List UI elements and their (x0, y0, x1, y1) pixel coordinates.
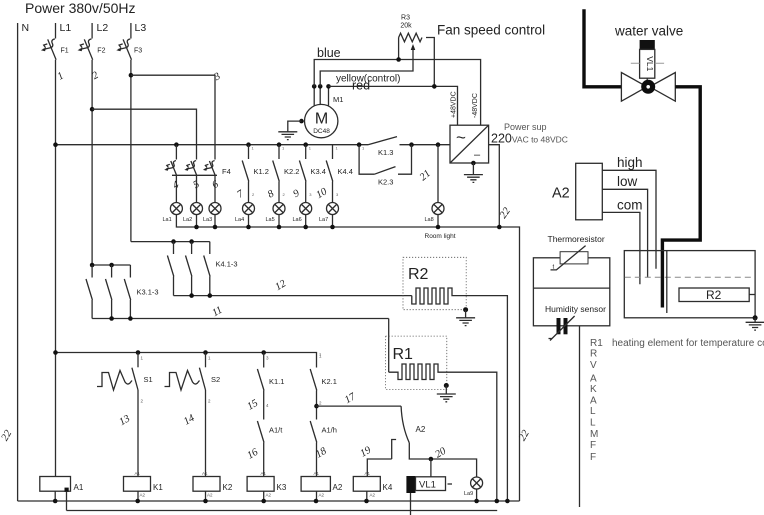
svg-text:La4: La4 (235, 217, 244, 223)
node bus room light tap (436, 142, 441, 147)
svg-text:F1: F1 (61, 48, 69, 55)
node A2 bus (314, 499, 319, 504)
wire lamp drops to rail (197, 215, 333, 228)
svg-text:blue: blue (317, 46, 341, 60)
svg-text:red: red (352, 79, 370, 93)
node bus K1.2 tap (246, 142, 251, 147)
svg-text:A2: A2 (140, 493, 146, 498)
wire K4 coil to bus (366, 491, 368, 501)
node rail La6 (303, 225, 308, 230)
contact K2.3 parallel branch (359, 145, 411, 175)
tank heater R2 box (679, 288, 749, 302)
wire 17 (317, 405, 402, 407)
water level dashed (625, 276, 755, 278)
svg-text:L3: L3 (135, 22, 147, 34)
svg-text:R1: R1 (393, 346, 414, 363)
lamp La7 (327, 203, 339, 215)
fuse F4 pole 1 (164, 161, 177, 176)
svg-text:M1: M1 (333, 95, 343, 104)
svg-text:N: N (22, 22, 30, 34)
node K2 bus (203, 499, 208, 504)
svg-text:K4.1-3: K4.1-3 (216, 260, 238, 269)
node bus-L1 junction (53, 142, 58, 147)
contact K3.4 (305, 145, 307, 159)
svg-text:La2: La2 (183, 217, 192, 223)
node L3 to wire 3 branch (129, 73, 134, 78)
wire K3.4 to La6 (305, 182, 307, 203)
svg-text:La6: La6 (293, 217, 302, 223)
node bus352 S1 (136, 350, 141, 355)
lamp La2 (191, 203, 203, 215)
wire L2 top (91, 23, 93, 39)
svg-text:A: A (590, 396, 597, 407)
svg-text:A2: A2 (333, 483, 343, 492)
contactor K4.1-3 pole 1 (167, 242, 173, 296)
svg-text:R1heating element for temperat: R1heating element for temperature co (590, 338, 764, 349)
wire L2 branch to La2 breaker (92, 109, 196, 159)
wire neutral bottom bus (18, 500, 520, 502)
svg-text:K1.1: K1.1 (269, 377, 284, 386)
wire PSU to ground (472, 163, 474, 175)
wire N vertical (17, 23, 19, 501)
wire bottom bus2 (67, 510, 498, 512)
wire R2 box to tank wall (749, 294, 755, 296)
node bus K2.3 right (409, 142, 414, 147)
wire sensor output down (579, 326, 581, 507)
wire tank ground stub (754, 318, 756, 323)
svg-text:A2: A2 (552, 186, 570, 202)
node bus La1 tap (174, 142, 179, 147)
wire bus 144 right portion to PSU (400, 144, 451, 146)
svg-text:com: com (617, 198, 643, 213)
contactor K3.1-3 pole 2 (106, 265, 112, 319)
coil VL1 solenoid black (406, 476, 415, 493)
svg-text:L: L (590, 406, 596, 417)
contact K1.3 blade (368, 137, 397, 145)
svg-text:L1: L1 (60, 22, 72, 34)
wire K2.2 to La5 (278, 182, 280, 203)
node La9 bus (474, 499, 479, 504)
contactor K3.1-3 pole 1 (86, 265, 92, 319)
lamp La3 (209, 203, 221, 215)
node bus352 K1.1 (261, 350, 266, 355)
svg-text:V: V (590, 360, 597, 371)
wire K3 coil to bus (263, 491, 265, 501)
node K4 bottom mid (189, 293, 194, 298)
contact A1/h (310, 421, 317, 443)
wire L2 vertical (91, 60, 93, 265)
svg-text:220VAC to 48VDC: 220VAC to 48VDC (491, 132, 568, 146)
node motor terminal red (326, 84, 331, 89)
node bus K3.4 tap (303, 142, 308, 147)
node rail La4 (246, 225, 251, 230)
node K4 bus (364, 499, 369, 504)
fuse F4 pole 2 (184, 161, 197, 176)
lamp La4 (243, 203, 255, 215)
ground motor (278, 132, 297, 140)
svg-text:VL1: VL1 (645, 56, 655, 71)
svg-text:Fan speed control: Fan speed control (437, 23, 545, 38)
sensor box (533, 258, 609, 326)
wire yellow control (320, 49, 413, 87)
node R1 ground tap (444, 383, 449, 388)
wire A1 aux to bus2 (66, 492, 68, 511)
wire bus PSU right to wire 22 (489, 145, 500, 227)
lamp La6 (300, 203, 312, 215)
svg-text:A2: A2 (416, 425, 426, 434)
wire 20 (409, 443, 476, 478)
node bus K1.3 left (357, 142, 362, 147)
heater R1 dotted enclosure (386, 336, 447, 389)
svg-text:20k: 20k (400, 23, 412, 30)
svg-text:K2.2: K2.2 (284, 167, 299, 176)
svg-text:L: L (590, 418, 596, 429)
svg-text:M: M (315, 111, 328, 128)
wire L1 top (55, 23, 57, 39)
switch S1 thermal (137, 353, 139, 368)
contactor K4.1-3 top bar from L3 (131, 241, 210, 243)
wire La9 to bus (476, 489, 478, 501)
svg-text:VL1: VL1 (419, 480, 436, 491)
svg-text:K3.1-3: K3.1-3 (137, 288, 159, 297)
wire A2 coil to bus (316, 491, 318, 501)
svg-text:~: ~ (456, 128, 466, 147)
heater R2 dotted enclosure (403, 257, 466, 309)
node rail La7 (330, 225, 335, 230)
pipe inlet thick (584, 9, 621, 87)
contact K1.2 (248, 145, 250, 159)
node bus352 S2 (203, 350, 208, 355)
svg-text:A2: A2 (207, 493, 213, 498)
svg-text:F3: F3 (134, 48, 142, 55)
svg-text:La1: La1 (163, 217, 172, 223)
wire red (329, 86, 458, 125)
svg-text:Power 380v/50Hz: Power 380v/50Hz (25, 0, 136, 16)
wire R3 left leg (398, 38, 400, 60)
wire R3 right leg (426, 38, 434, 87)
node K4 bar pole1 (171, 239, 176, 244)
wire blue (314, 60, 480, 126)
svg-text:La5: La5 (266, 217, 275, 223)
svg-text:A1: A1 (202, 471, 208, 476)
contactor K3.1-3 top bar (92, 264, 130, 266)
wire main bus 144 left portion (56, 144, 369, 146)
svg-text:A1/h: A1/h (322, 426, 337, 435)
thermoresistor R (560, 252, 588, 264)
node VL1 tap (429, 457, 434, 462)
svg-text:A1/t: A1/t (269, 426, 283, 435)
ground tank (746, 322, 764, 330)
fuse F4 trip bar (172, 174, 217, 176)
wire low (602, 189, 647, 277)
wire La1 feed from bus (175, 145, 177, 160)
svg-text:K1.3: K1.3 (378, 148, 393, 157)
coil K1 (124, 477, 151, 492)
wire F4.3 to La3 (214, 176, 216, 203)
node motor terminal yellow (318, 84, 323, 89)
node rail La5 (277, 225, 282, 230)
node wire17 tap (314, 404, 319, 409)
node K4 bottom right (208, 293, 213, 298)
potentiometer R3 (399, 15, 422, 42)
contact A1/t (257, 421, 264, 443)
node rail La8 (436, 225, 441, 230)
node rail La3 (213, 225, 218, 230)
svg-text:A: A (590, 373, 597, 384)
svg-text:Room light: Room light (425, 233, 456, 240)
wire high (602, 170, 656, 268)
node K3 bottom right (128, 316, 133, 321)
coil K3 (247, 477, 274, 492)
wire 11 bottom bar (92, 318, 389, 320)
wire K1 coil to bus (137, 491, 139, 501)
svg-text:A2: A2 (319, 493, 325, 498)
heater R2 element (412, 288, 508, 501)
svg-text:A2: A2 (370, 493, 376, 498)
wire lamp return rail 22 (176, 215, 519, 502)
svg-text:F: F (590, 440, 596, 451)
svg-text:A1: A1 (74, 483, 84, 492)
wire K2.1 to A1/h (316, 391, 318, 420)
coil A2 (301, 477, 330, 492)
lamp La8 (432, 203, 444, 215)
contactor K4.1-3 pole 3 (204, 242, 210, 296)
tank sensor rod (666, 251, 668, 313)
svg-text:Thermoresistor: Thermoresistor (548, 234, 605, 244)
controller A2 box (576, 163, 603, 220)
wire 11 down to R1 (388, 319, 390, 373)
node K3 bar mid (109, 263, 114, 268)
svg-text:La3: La3 (203, 217, 212, 223)
power supply U1 box (450, 125, 489, 163)
node R3-red junction (432, 84, 437, 89)
coil VL1 box (416, 477, 446, 491)
wire A1 coil to bus (54, 491, 56, 501)
node A1 bus (53, 499, 58, 504)
svg-text:K3.4: K3.4 (311, 167, 326, 176)
node bus352 L1 (53, 350, 58, 355)
svg-text:La8: La8 (425, 217, 434, 223)
wire com (602, 212, 640, 284)
svg-text:R2: R2 (706, 288, 722, 302)
svg-text:Power sup: Power sup (504, 122, 547, 132)
svg-text:R3: R3 (401, 15, 410, 22)
svg-text:F4: F4 (222, 167, 231, 176)
svg-text:S1: S1 (144, 375, 153, 384)
svg-text:A1: A1 (314, 471, 320, 476)
wire L1 main vertical (55, 60, 57, 477)
valve ball (641, 80, 655, 94)
node bus K2.2 tap (277, 142, 282, 147)
ground R1 (437, 394, 456, 402)
contact K2.1 (310, 369, 317, 391)
wire 12 bottom bar (174, 295, 412, 297)
svg-text:A2: A2 (266, 493, 272, 498)
switch A2 blade (401, 406, 409, 443)
coil K2 (193, 477, 220, 492)
pipe outlet thick (662, 87, 700, 308)
fuse F2 (78, 39, 93, 60)
contact K2.2 (278, 145, 280, 159)
node rail La2 (194, 225, 199, 230)
svg-text:K4: K4 (383, 483, 393, 492)
svg-text:–: – (474, 149, 481, 161)
wire K1.2 to La4 (248, 182, 250, 203)
motor terminal wires (314, 86, 328, 105)
svg-text:A1: A1 (135, 471, 141, 476)
node R3-blue junction (396, 57, 401, 62)
node tank ground (753, 315, 758, 320)
wire A1/t to K3 coil (263, 443, 265, 477)
lamp La1 (170, 203, 182, 215)
svg-text:low: low (617, 174, 638, 189)
valve body bowtie (621, 73, 675, 102)
wire 3 from L3 to La3 breaker (131, 75, 215, 159)
svg-text:La9: La9 (464, 491, 473, 497)
wire control bus 352 (56, 353, 317, 368)
coil VL1 right tick (448, 483, 453, 485)
svg-text:water valve: water valve (614, 24, 683, 39)
svg-text:K2.1: K2.1 (322, 377, 337, 386)
lamp La5 (273, 203, 285, 215)
node K3 bottom mid (109, 316, 114, 321)
wire F4.2 to La2 (196, 176, 198, 203)
valve stem (646, 78, 648, 80)
node rail wire22 junction (497, 225, 502, 230)
svg-text:F2: F2 (97, 48, 105, 55)
switch S2 thermal (205, 353, 207, 368)
svg-text:F: F (590, 452, 596, 463)
node motor case ground tap (299, 119, 304, 124)
wire 19 (367, 459, 391, 477)
valve side ticks (631, 62, 664, 64)
wire VL1 coil feed (430, 459, 432, 477)
heater R1 element (389, 364, 497, 501)
valve VL1 solenoid body (640, 49, 655, 78)
wire L3 vertical (130, 60, 132, 242)
svg-text:K1.2: K1.2 (254, 167, 269, 176)
wire R1 ground stub (445, 386, 447, 395)
water tank (624, 251, 755, 318)
svg-text:M: M (590, 429, 598, 440)
node K3 bar left (90, 263, 95, 268)
node L2 to La2 branch (90, 107, 95, 112)
motor M1 (305, 95, 344, 138)
node K3 bus (261, 499, 266, 504)
valve VL1 solenoid cap (640, 40, 655, 49)
wire R2 ground stub (465, 310, 467, 318)
contactor K4.1-3 pole 2 (186, 242, 192, 296)
svg-text:La7: La7 (319, 217, 328, 223)
fuse F4 pole 3 (203, 161, 216, 176)
node A1 aux pin (65, 488, 69, 492)
lamp La9 (471, 477, 483, 489)
humidity capacitor (557, 318, 561, 334)
svg-text:R2: R2 (408, 266, 429, 283)
node PSU ground pin (471, 161, 476, 166)
wire K4.4 to La7 (332, 182, 334, 203)
wire K1.1 to A1/t (263, 391, 265, 420)
svg-text:DC48: DC48 (313, 128, 330, 135)
svg-text:K3: K3 (277, 483, 287, 492)
svg-text:L2: L2 (97, 22, 109, 34)
svg-text:K2.3: K2.3 (378, 178, 393, 187)
ground R2 (456, 318, 475, 326)
svg-text:S2: S2 (211, 375, 220, 384)
node R2 return bus (505, 499, 510, 504)
svg-text:-48VDC: -48VDC (472, 93, 479, 118)
svg-text:K2: K2 (223, 483, 233, 492)
node K1 bus (135, 499, 140, 504)
switch A2 fixed contact (392, 440, 396, 460)
svg-text:K1: K1 (153, 483, 163, 492)
node K4 bar pole2 (189, 239, 194, 244)
svg-text:K4.4: K4.4 (338, 167, 353, 176)
node motor terminal blue (312, 84, 317, 89)
wire motor to ground (288, 121, 302, 132)
contact K4.4 (332, 145, 334, 159)
svg-text:+48VDC: +48VDC (451, 91, 458, 118)
wire S2 to K2 coil (205, 390, 207, 477)
node R1 return bus (495, 499, 500, 504)
wire A1/h to A2 coil (316, 443, 318, 477)
coil K4 (353, 477, 380, 492)
wire La8 to rail (437, 215, 439, 228)
node R2 ground tap (463, 307, 468, 312)
fuse F1 (41, 39, 56, 60)
svg-text:A1: A1 (365, 471, 371, 476)
wire L3 top (130, 23, 132, 39)
contact K1.1 (263, 353, 265, 368)
svg-text:K: K (590, 384, 597, 395)
contactor K3.1-3 pole 3 (124, 265, 130, 319)
ground PSU (464, 175, 483, 183)
wire K2 coil to bus (205, 491, 207, 501)
R3 wiper arrow (411, 44, 416, 50)
wire 21 room light feed (437, 145, 439, 203)
wire VL1 down (410, 493, 412, 515)
wire S1 to K1 coil (137, 390, 139, 477)
svg-text:Humidity sensor: Humidity sensor (545, 304, 606, 314)
svg-text:R: R (590, 349, 597, 360)
svg-text:high: high (617, 155, 643, 170)
fuse F3 (116, 39, 131, 60)
svg-text:A1: A1 (261, 471, 267, 476)
wire F4.1 to La1 (175, 176, 177, 203)
coil A1 (40, 477, 71, 492)
